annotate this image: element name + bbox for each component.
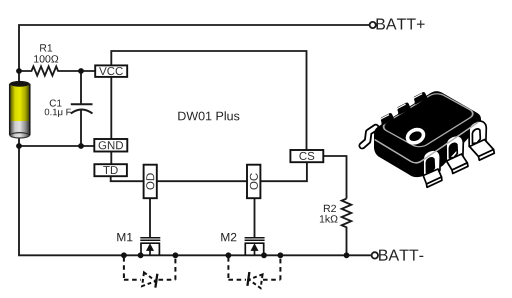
wire battery negative down-left	[19, 146, 371, 255]
pin box OC	[247, 165, 260, 199]
label BATT+	[377, 19, 425, 30]
wire TD down to gate rail	[111, 176, 144, 181]
pin box TD	[94, 164, 127, 176]
label M2	[221, 233, 236, 241]
wire M2 gate	[254, 198, 256, 238]
wire gate rail OD-OC	[157, 180, 247, 182]
package top face bevel	[380, 91, 477, 149]
wire BATT+ top rail	[19, 25, 370, 71]
node D1 left	[121, 252, 127, 258]
node D2 left	[226, 252, 232, 258]
node R2 bottom	[344, 252, 350, 258]
label C1	[50, 100, 62, 107]
label 1kohm	[320, 215, 338, 223]
package mold seam	[375, 122, 479, 163]
package back tabs	[380, 92, 427, 125]
diode D1	[142, 272, 157, 288]
wire GND rail	[19, 145, 95, 147]
label BATT-	[379, 250, 423, 261]
label 100ohm	[34, 55, 58, 62]
transistor M2	[245, 238, 265, 256]
pin box CS	[290, 150, 323, 162]
package body	[374, 91, 481, 177]
battery BT1	[10, 81, 30, 138]
wire VCC to GND inside left edge	[110, 77, 112, 139]
package front lead 3	[469, 121, 494, 160]
wire CS to R2	[323, 156, 346, 199]
wire GND to TD	[110, 152, 112, 165]
resistor R2	[342, 199, 352, 256]
node BATT+ terminal	[370, 22, 376, 28]
SOT-23-6 package illustration	[362, 91, 494, 187]
IC U1 DW01 Plus outline	[111, 51, 306, 150]
node battery minus	[16, 143, 22, 149]
pin box OD	[144, 165, 157, 199]
body diode D1 dashed box	[124, 257, 175, 280]
transistor M1	[140, 238, 160, 256]
pin box GND	[94, 139, 127, 152]
node BATT- terminal	[372, 252, 378, 258]
package front lead 1	[423, 150, 442, 187]
label M1	[117, 233, 132, 241]
resistor R1	[19, 66, 95, 75]
pin box VCC	[95, 65, 127, 77]
package front lead 2	[446, 136, 468, 174]
label R2	[324, 205, 336, 212]
diode D2	[247, 272, 262, 288]
wire M1 gate	[149, 198, 151, 238]
capacitor C1	[71, 71, 93, 146]
body diode D2 dashed box	[228, 257, 280, 280]
node D2 right	[278, 252, 284, 258]
package pin1 ring	[405, 127, 425, 145]
node battery plus	[16, 68, 22, 74]
wire OC to CS bottom	[260, 162, 307, 181]
node C1/GND	[78, 143, 84, 149]
package back lead left	[362, 128, 376, 146]
label DW01 Plus	[178, 111, 239, 120]
node R1/C1/VCC	[78, 68, 84, 74]
node M1 source	[138, 252, 144, 258]
label 0.1uF	[45, 109, 71, 117]
node M2 drain	[261, 252, 267, 258]
node D1 right	[173, 252, 179, 258]
wire battery stubs	[18, 71, 20, 82]
label R1	[40, 44, 52, 51]
